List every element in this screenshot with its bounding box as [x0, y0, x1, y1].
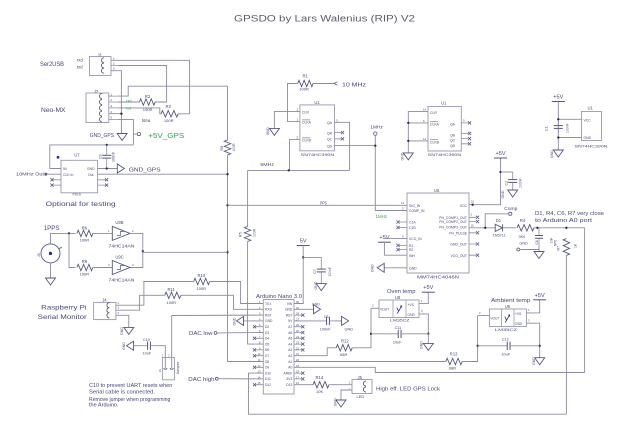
- connector J4 contacts: [107, 303, 110, 318]
- svg-text:NP0: NP0: [554, 240, 558, 246]
- ground at C2: [508, 190, 518, 197]
- IC U1b body: [428, 107, 461, 152]
- junction 1MHz / QD: [374, 144, 376, 146]
- svg-text:rxd: rxd: [126, 99, 131, 103]
- connector J1 body: [90, 57, 112, 76]
- svg-text:R1: R1: [303, 73, 309, 78]
- svg-text:LED: LED: [357, 394, 365, 399]
- no-connect Arduino left pin: [253, 366, 256, 369]
- U1a CLKA overline: [302, 119, 310, 121]
- junction J2 pin4 / gnd: [120, 113, 122, 115]
- jumper J6 body: [162, 358, 174, 380]
- connector J1 pin stubs: [111, 60, 118, 70]
- svg-text:1K: 1K: [574, 243, 578, 248]
- power +5V top right: [552, 95, 565, 102]
- svg-text:GND: GND: [371, 264, 375, 272]
- svg-text:txd: txd: [77, 65, 83, 70]
- connector J3 BNC circle: [41, 244, 60, 263]
- wire A0 node down right side: [584, 228, 586, 373]
- wire J1 pin3 / J2 pin4 ground net: [118, 71, 122, 134]
- Arduino left nc stubs: [256, 327, 264, 385]
- ground at U5 GND: [377, 263, 384, 272]
- svg-text:D11: D11: [265, 377, 271, 381]
- connector J2 contacts: [100, 94, 103, 122]
- wire R10 to J4 pin1: [116, 282, 194, 306]
- wire R4 to A0 node: [534, 227, 585, 229]
- svg-text:A1: A1: [288, 360, 292, 364]
- connector J5 contacts: [363, 381, 366, 392]
- svg-text:R6: R6: [82, 225, 88, 230]
- no-connect Arduino right pin: [301, 337, 304, 340]
- svg-text:to Arduino A0 port: to Arduino A0 port: [535, 218, 593, 224]
- svg-text:C7: C7: [313, 269, 317, 274]
- junction C9 bottom: [106, 167, 108, 169]
- svg-text:R12: R12: [341, 338, 349, 343]
- connector J1 contacts: [102, 58, 104, 73]
- wire U8 +VS to +5V: [419, 292, 428, 303]
- svg-text:MM74HC4046N: MM74HC4046N: [417, 275, 459, 280]
- connector J2 pin stubs: [109, 96, 118, 119]
- svg-text:VIN: VIN: [287, 302, 293, 306]
- wire 1MHz to U5 COMP_IN: [375, 135, 407, 210]
- svg-text:A5: A5: [288, 337, 292, 341]
- U6 internal dividers: [501, 309, 514, 327]
- svg-text:Ser2USB: Ser2USB: [40, 61, 64, 68]
- svg-text:Neo-MX: Neo-MX: [41, 107, 66, 114]
- svg-text:+5V_GPS: +5V_GPS: [148, 131, 184, 140]
- power +5V at U6: [533, 293, 546, 300]
- svg-text:QC: QC: [450, 139, 456, 143]
- svg-text:100R: 100R: [232, 143, 236, 152]
- junction C6 top: [536, 227, 538, 229]
- connector J2 body: [86, 93, 109, 123]
- no-connect U5 output: [476, 231, 479, 234]
- resistor R1: [298, 80, 313, 86]
- svg-text:the Arduino.: the Arduino.: [89, 403, 119, 409]
- svg-text:100nF: 100nF: [328, 267, 332, 277]
- svg-text:Jumper: Jumper: [176, 361, 180, 374]
- no-connect U1a QB: [341, 131, 344, 134]
- svg-text:C2: C2: [505, 181, 509, 186]
- svg-text:CLK In: CLK In: [63, 173, 73, 177]
- junction C9 top: [106, 144, 108, 146]
- U1b CLKA overline: [430, 121, 438, 123]
- svg-text:GND: GND: [233, 317, 237, 325]
- ground at C7: [316, 284, 326, 291]
- svg-text:U6: U6: [505, 304, 511, 309]
- wire R1 left to U1 CLKA: [288, 84, 300, 122]
- connector J3 tab: [59, 247, 63, 249]
- wire J5 pin2 to ground: [341, 390, 352, 400]
- svg-text:5V: 5V: [63, 167, 68, 171]
- no-connect U7 pin: [105, 184, 108, 187]
- wire U8 GND down: [419, 314, 428, 334]
- ground at C3: [342, 316, 349, 325]
- svg-text:12: 12: [423, 137, 427, 141]
- svg-text:100nF: 100nF: [112, 151, 116, 162]
- U7 pin1 blue dot: [57, 156, 60, 159]
- power 5V at VIN: [297, 239, 310, 246]
- junction R7 top: [565, 227, 567, 229]
- wire Arduino GND right: [294, 308, 314, 310]
- wire PPS net down to Arduino D8: [228, 155, 264, 362]
- svg-text:D6: D6: [265, 348, 269, 352]
- svg-text:D12: D12: [265, 383, 271, 387]
- svg-text:GND: GND: [550, 150, 554, 158]
- svg-text:U1: U1: [588, 106, 594, 111]
- wire U5 GND stub: [384, 267, 407, 269]
- svg-text:Serial cable is connected.: Serial cable is connected.: [89, 390, 155, 396]
- resistor R10: [194, 278, 210, 284]
- svg-text:R10: R10: [198, 273, 206, 278]
- ground at U8: [423, 343, 433, 350]
- svg-text:100R: 100R: [197, 286, 207, 291]
- wire J3 shield to ground: [50, 263, 52, 278]
- no-connect U1b Q9: [468, 121, 471, 124]
- svg-text:C11: C11: [395, 326, 402, 330]
- ground at J5: [336, 400, 346, 407]
- svg-text:LM35CZ: LM35CZ: [495, 327, 518, 332]
- svg-text:Serial Monitor: Serial Monitor: [38, 314, 87, 321]
- capacitor C1: [554, 121, 563, 133]
- terminal GND circle near C6: [517, 248, 520, 251]
- Arduino pin name labels: [265, 302, 293, 387]
- svg-text:R8: R8: [220, 146, 224, 151]
- svg-text:A7: A7: [288, 325, 292, 329]
- svg-text:QD: QD: [450, 144, 456, 148]
- svg-text:GND: GND: [265, 319, 273, 323]
- svg-text:5MHz: 5MHz: [260, 162, 274, 168]
- junction U1b CLKB gnd: [407, 140, 409, 142]
- wire R5 to Arduino D5: [248, 242, 264, 345]
- no-connect U5 R1: [396, 244, 399, 247]
- wire U6 GND down: [526, 323, 539, 358]
- svg-text:VOUT: VOUT: [380, 308, 389, 312]
- svg-text:DAC low: DAC low: [189, 331, 213, 337]
- svg-text:txd: txd: [126, 106, 131, 110]
- U5 nc stubs right: [469, 217, 476, 255]
- terminal 1MHz circle: [374, 132, 377, 135]
- svg-text:J4: J4: [102, 297, 107, 302]
- wire U6 +VS to +5V: [526, 300, 539, 313]
- svg-text:PH_COMP3_OUT: PH_COMP3_OUT: [439, 225, 467, 229]
- svg-text:A2: A2: [288, 354, 292, 358]
- svg-text:16: 16: [471, 200, 475, 204]
- connector J4 body: [94, 302, 116, 319]
- svg-text:D13: D13: [286, 383, 292, 387]
- wire J3 to R9: [69, 233, 75, 267]
- svg-text:C10: C10: [143, 338, 150, 342]
- svg-text:R2: R2: [409, 248, 413, 252]
- no-connect Arduino right pin: [301, 314, 304, 317]
- no-connect U5 output: [476, 254, 479, 257]
- svg-text:10uF: 10uF: [393, 341, 402, 345]
- svg-text:1PPS: 1PPS: [44, 225, 60, 232]
- svg-text:PH_PULSE: PH_PULSE: [449, 231, 467, 235]
- wire U1 GND pin: [558, 137, 581, 139]
- svg-text:A0: A0: [288, 366, 292, 370]
- no-connect U7 pin: [50, 178, 53, 181]
- wire DAC high to Arduino D11: [218, 378, 263, 380]
- ground at J4: [124, 327, 134, 334]
- U6 sensor arrow: [505, 315, 510, 323]
- svg-text:CLR: CLR: [302, 110, 309, 114]
- svg-text:100nF: 100nF: [566, 123, 570, 133]
- wire C10 to jumper pin1: [157, 346, 165, 368]
- svg-text:74HC14AN: 74HC14AN: [109, 244, 135, 249]
- wire +5V_GPS stub: [133, 133, 137, 135]
- svg-text:QB: QB: [327, 131, 333, 135]
- Arduino right nc stubs: [294, 315, 302, 379]
- wire +5V to VCC pin: [558, 118, 581, 120]
- wire U5 VCC to +5V: [469, 158, 501, 205]
- IC U6 body: [489, 309, 526, 327]
- U1a QB QC nc stubs: [335, 133, 342, 139]
- capacitor C2: [508, 172, 517, 190]
- svg-text:U5: U5: [434, 188, 440, 193]
- wire J2 pin5 to +5V_GPS: [118, 119, 134, 144]
- wire R11 to Arduino RXD: [181, 295, 263, 309]
- junction C12 right: [539, 345, 541, 347]
- wire J2 pin3 txd to R3: [118, 108, 161, 114]
- svg-text:+VS: +VS: [408, 303, 415, 307]
- no-connect Arduino right pin: [301, 348, 304, 351]
- svg-text:LM35CZ: LM35CZ: [390, 318, 410, 323]
- inverter U9C: [112, 261, 130, 275]
- ground at J3: [46, 278, 56, 285]
- wire J1 pin2 to R2 right: [118, 66, 167, 103]
- junction 5MHz / CLKB: [288, 169, 290, 171]
- junction PPS / U5 SIG_IN: [226, 204, 228, 206]
- svg-text:GND: GND: [519, 242, 528, 246]
- svg-text:R13: R13: [450, 351, 458, 356]
- svg-text:10uF: 10uF: [143, 352, 152, 356]
- junction J3 / R9 branch: [68, 232, 70, 234]
- resistor R5: [244, 227, 250, 242]
- svg-text:C12: C12: [502, 338, 509, 342]
- wire gnd to C10: [134, 345, 142, 347]
- capacitor C11: [371, 330, 428, 338]
- wire U1b CLKA to ground: [408, 122, 428, 124]
- U8 sensor arrow: [397, 306, 402, 314]
- resistor R13: [446, 358, 462, 364]
- wire Arduino A2 to R12: [294, 348, 336, 356]
- svg-text:VCC: VCC: [584, 118, 592, 122]
- wire Arduino A1 to R13: [294, 361, 446, 363]
- wire U9C output up: [130, 251, 143, 267]
- wire J1 pin1 to R3 right: [118, 60, 190, 114]
- wire Arduino GND left: [244, 320, 264, 322]
- svg-text:R14: R14: [316, 375, 324, 380]
- svg-text:C1B: C1B: [409, 226, 416, 230]
- svg-text:10MHz Out: 10MHz Out: [16, 172, 45, 178]
- svg-text:VOUT: VOUT: [490, 317, 499, 321]
- power +5V at U5 INH: [378, 235, 391, 242]
- svg-text:GND: GND: [515, 322, 523, 326]
- svg-text:3V3: 3V3: [286, 377, 292, 381]
- svg-text:DAC high: DAC high: [188, 377, 215, 383]
- wire U1b CLKB to ground: [408, 140, 428, 142]
- resistor R3: [161, 111, 178, 117]
- resistor R14: [313, 382, 329, 388]
- wire U7 Out to PPS net: [98, 173, 228, 175]
- svg-text:GND_OUT: GND_OUT: [450, 243, 467, 247]
- svg-text:A3: A3: [288, 348, 292, 352]
- no-connect Arduino right pin: [301, 372, 304, 375]
- wire C6 lower lead: [538, 246, 540, 250]
- svg-text:RST: RST: [265, 313, 272, 317]
- svg-text:CLKA: CLKA: [302, 121, 312, 125]
- svg-text:R7: R7: [557, 246, 561, 251]
- svg-text:C9: C9: [99, 154, 103, 159]
- svg-text:SN74HC390N: SN74HC390N: [428, 152, 462, 157]
- power +5V at U8: [422, 285, 435, 292]
- svg-text:100R: 100R: [167, 300, 177, 305]
- svg-text:SN74HC390N: SN74HC390N: [301, 152, 335, 157]
- wire U1 CLR to ground: [274, 111, 300, 128]
- svg-text:GPSDO by Lars Walenius (RIP) V: GPSDO by Lars Walenius (RIP) V2: [234, 14, 415, 24]
- svg-text:PPS: PPS: [320, 200, 327, 205]
- no-connect U5 C1A: [396, 220, 399, 223]
- wire to C2: [501, 171, 513, 173]
- no-connect Arduino left pin: [253, 354, 256, 357]
- wire J2 pin2 rxd to R2: [118, 101, 140, 103]
- svg-text:VCO_IN: VCO_IN: [409, 237, 422, 241]
- wire 5MHz rail: [248, 169, 350, 171]
- svg-text:Ambient temp: Ambient temp: [491, 298, 530, 304]
- svg-text:GND: GND: [333, 398, 337, 406]
- svg-text:100nF: 100nF: [320, 327, 331, 331]
- svg-text:Raspberry Pi: Raspberry Pi: [41, 304, 86, 311]
- wire U6 VOUT stub: [478, 315, 490, 317]
- svg-text:SN74HC390N: SN74HC390N: [575, 143, 608, 148]
- U8 internal dividers: [393, 300, 406, 318]
- svg-text:GND: GND: [501, 190, 505, 198]
- svg-text:68R: 68R: [449, 365, 456, 370]
- wire 10MHz Out to U7 CLK In: [47, 173, 61, 175]
- svg-text:AREF: AREF: [284, 371, 293, 375]
- no-connect U5 output: [476, 216, 479, 219]
- svg-text:U9B: U9B: [115, 220, 123, 225]
- wire Arduino 5V pin to C3: [294, 320, 321, 322]
- svg-text:Arduino Nano 3.0: Arduino Nano 3.0: [256, 294, 302, 300]
- svg-text:CLKB: CLKB: [430, 140, 440, 144]
- svg-text:3K9: 3K9: [519, 235, 526, 239]
- wire 5MHz rail down to R5: [247, 170, 249, 226]
- svg-text:10K: 10K: [316, 389, 323, 394]
- junction C2 tap: [499, 171, 501, 173]
- wire U9B output down: [130, 233, 143, 251]
- svg-text:U9C: U9C: [115, 254, 123, 259]
- wire J4 pin3 to ground: [116, 315, 129, 327]
- svg-text:RST: RST: [286, 313, 293, 317]
- svg-text:GND: GND: [87, 167, 95, 171]
- capacitor C7: [317, 257, 326, 283]
- U1a CLKB overline: [302, 137, 310, 139]
- svg-text:CLR: CLR: [430, 111, 437, 115]
- wire R14 to J5: [329, 384, 352, 386]
- no-connect U5 output: [476, 220, 479, 223]
- svg-text:10 MHz: 10 MHz: [342, 82, 366, 88]
- svg-text:D5: D5: [265, 342, 269, 346]
- wire R13 to ambient temp node: [462, 316, 477, 362]
- svg-text:TX1: TX1: [265, 302, 271, 306]
- svg-text:D7: D7: [265, 354, 269, 358]
- IC U5 body: [407, 193, 469, 273]
- no-connect Arduino right pin: [301, 377, 304, 380]
- no-connect Arduino left pin: [253, 383, 256, 386]
- svg-text:U7: U7: [74, 152, 80, 157]
- svg-text:GND: GND: [285, 308, 293, 312]
- svg-text:R3: R3: [166, 104, 172, 109]
- connector J5 body: [352, 380, 372, 394]
- svg-text:QB: QB: [450, 133, 456, 137]
- capacitor C10: [141, 342, 157, 350]
- ground Arduino left GND: [237, 316, 244, 325]
- svg-text:10uF: 10uF: [501, 353, 510, 357]
- wire R7 down to bottom rail: [565, 256, 567, 415]
- ground at U1b: [403, 153, 413, 160]
- wire DAC low to Arduino D3: [217, 332, 263, 334]
- svg-text:GND: GND: [345, 328, 354, 332]
- svg-text:100nF: 100nF: [519, 178, 523, 188]
- svg-text:GND_GPS: GND_GPS: [90, 133, 115, 139]
- resistor R7: [563, 239, 569, 256]
- no-connect Arduino right pin: [301, 325, 304, 328]
- svg-text:VCC: VCC: [460, 204, 468, 208]
- resistor R2: [139, 99, 155, 105]
- wire J2 pin4 to ground net: [118, 113, 122, 115]
- svg-text:C1A: C1A: [409, 221, 416, 225]
- svg-text:QD: QD: [327, 145, 333, 149]
- wire R11 to J4 pin2: [116, 295, 165, 310]
- no-connect U5 R2: [396, 248, 399, 251]
- junction inverter outputs: [142, 250, 144, 252]
- svg-text:COMP_IN: COMP_IN: [409, 209, 425, 213]
- wire U1a CLKB to 5MHz rail: [290, 140, 300, 171]
- svg-text:C6: C6: [535, 240, 539, 244]
- junction C7 tap: [302, 256, 304, 258]
- wire R6 to U9B input: [93, 232, 112, 234]
- svg-text:5V: 5V: [300, 239, 307, 245]
- svg-text:QA: QA: [327, 121, 333, 125]
- no-connect Arduino right pin: [301, 343, 304, 346]
- svg-text:+5V: +5V: [535, 293, 545, 299]
- svg-text:1MHz: 1MHz: [370, 124, 383, 130]
- IC Arduino Nano body: [263, 300, 294, 395]
- svg-text:1N5711: 1N5711: [493, 234, 506, 238]
- svg-text:GND_GPS: GND_GPS: [129, 167, 161, 173]
- terminal +5V_GPS circle: [137, 133, 140, 136]
- svg-text:J3: J3: [37, 253, 41, 257]
- no-connect U1b Q?: [468, 142, 471, 145]
- no-connect U1b Q10: [468, 137, 471, 140]
- power +5V above U5: [494, 151, 507, 158]
- svg-text:GND: GND: [409, 266, 417, 270]
- wire U5 PH_COMP3_OUT to D1: [469, 227, 495, 229]
- wire Arduino A0 to analog node: [294, 367, 585, 372]
- wire R1 to 10MHz terminal: [313, 83, 334, 85]
- svg-text:CLKB: CLKB: [302, 139, 312, 143]
- capacitor C3: [321, 317, 335, 325]
- wire R9 to U9C input: [93, 267, 112, 269]
- svg-text:C1: C1: [545, 126, 549, 131]
- no-connect Arduino left pin: [253, 348, 256, 351]
- diode D1: [495, 224, 502, 231]
- terminal Comp circle: [509, 212, 512, 215]
- wire +5V to U1 power and C1: [557, 102, 559, 151]
- svg-text:74HC14AN: 74HC14AN: [109, 277, 135, 282]
